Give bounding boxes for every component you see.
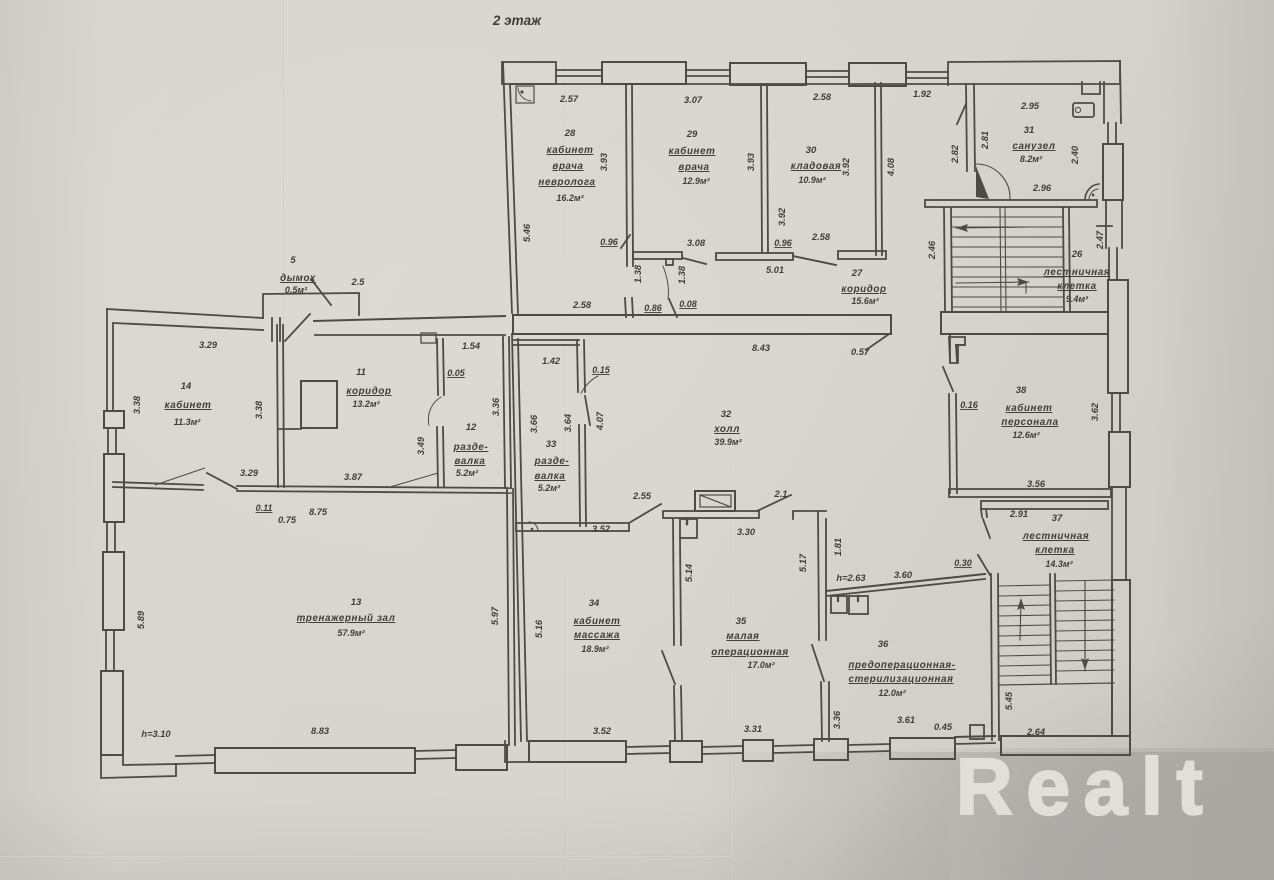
door leaf (left block entry) xyxy=(285,314,310,341)
svg-text:8.2м²: 8.2м² xyxy=(1020,154,1043,164)
leader 0.15 xyxy=(581,376,598,393)
wall: right exterior upper segment xyxy=(1103,82,1105,123)
window block M2 xyxy=(670,741,702,762)
wall: room 30 right xyxy=(875,83,876,255)
svg-text:2.55: 2.55 xyxy=(632,491,652,501)
svg-text:3.52: 3.52 xyxy=(593,726,612,736)
window block W4 xyxy=(849,63,906,86)
window: bottom glazing m2 xyxy=(702,746,743,747)
svg-text:5: 5 xyxy=(290,255,296,266)
svg-text:3.29: 3.29 xyxy=(199,340,218,350)
svg-text:38: 38 xyxy=(1016,385,1027,396)
door leaf hall/room38 xyxy=(943,367,953,391)
svg-text:14: 14 xyxy=(181,381,192,392)
column box room 34 top-left corner xyxy=(680,519,697,538)
stairs: lower stairwell 37 treads right flight xyxy=(1056,580,1114,671)
svg-text:29: 29 xyxy=(686,129,698,140)
stairs 37: flight divider xyxy=(1050,574,1051,684)
svg-text:валка: валка xyxy=(535,471,566,482)
svg-text:3.49: 3.49 xyxy=(416,436,426,455)
svg-text:лестничная: лестничная xyxy=(1043,267,1110,278)
svg-text:5.2м²: 5.2м² xyxy=(456,468,479,478)
wall: room 14 right partition xyxy=(277,325,278,487)
door arc room 31 xyxy=(976,164,1010,199)
wall: room 29 bottom xyxy=(633,252,682,259)
svg-text:3.62: 3.62 xyxy=(1090,402,1100,421)
door leaf rooms 35/36 xyxy=(812,645,824,681)
svg-text:4.08: 4.08 xyxy=(886,157,896,177)
svg-text:3.93: 3.93 xyxy=(746,152,756,171)
svg-text:3.38: 3.38 xyxy=(132,395,142,414)
svg-text:0.96: 0.96 xyxy=(600,237,619,247)
svg-text:коридор: коридор xyxy=(346,386,391,397)
corner box room36 bottom-right xyxy=(970,725,984,739)
svg-text:3.07: 3.07 xyxy=(684,95,703,105)
sink room 31 corner xyxy=(1085,184,1099,200)
svg-text:1.81: 1.81 xyxy=(833,538,843,556)
closet box corridor 11 xyxy=(301,381,337,428)
svg-text:36: 36 xyxy=(878,639,889,650)
window block W2 xyxy=(602,62,686,84)
svg-text:3.61: 3.61 xyxy=(897,715,915,725)
svg-text:2.5: 2.5 xyxy=(351,277,366,287)
door leaf room 34 (from hall) xyxy=(629,504,661,523)
wall: divider right part to room12 xyxy=(237,486,511,488)
svg-text:3.52: 3.52 xyxy=(592,524,611,534)
svg-text:предоперационная-: предоперационная- xyxy=(848,660,955,671)
wall stub below chimney xyxy=(271,318,273,341)
wall: stair26 right landing edge xyxy=(1063,207,1064,312)
wall: room 33 top stub xyxy=(577,340,578,392)
wall: room 31 bottom xyxy=(925,200,1097,207)
svg-text:1.92: 1.92 xyxy=(913,89,932,99)
svg-text:стерилизационная: стерилизационная xyxy=(849,674,954,685)
window block M1 (long, room 34 bottom) xyxy=(529,741,626,762)
partition rooms 29/30 xyxy=(761,84,762,253)
closet bottom line xyxy=(279,428,301,430)
svg-text:2.96: 2.96 xyxy=(1032,183,1052,193)
window block L2 xyxy=(104,454,124,522)
svg-text:3.29: 3.29 xyxy=(240,468,259,478)
wall: upper block top inner line xyxy=(511,83,1120,85)
wall: corridor 11 top (right of chimney) xyxy=(314,316,505,321)
svg-text:5.46: 5.46 xyxy=(522,223,532,242)
svg-text:0.15: 0.15 xyxy=(592,365,611,375)
wall: room 31 top-right inner notch xyxy=(1082,82,1100,94)
svg-text:2.40: 2.40 xyxy=(1070,145,1080,165)
svg-text:37: 37 xyxy=(1052,513,1063,524)
wall: gym right wall xyxy=(507,489,509,745)
svg-text:2.81: 2.81 xyxy=(980,131,990,150)
wall: hall right (room 38 side) upper stub xyxy=(949,337,965,345)
svg-text:2.91: 2.91 xyxy=(1009,509,1028,519)
svg-text:14.3м²: 14.3м² xyxy=(1045,559,1073,569)
door leaf triangle room 31 xyxy=(976,166,989,199)
svg-text:3.30: 3.30 xyxy=(737,527,756,537)
wall: room 37 top xyxy=(981,501,1108,509)
svg-text:3.92: 3.92 xyxy=(777,207,787,226)
svg-text:11: 11 xyxy=(356,367,366,378)
svg-text:2 этаж: 2 этаж xyxy=(492,13,542,28)
svg-text:12: 12 xyxy=(466,422,477,433)
door leaf room 30 xyxy=(793,256,836,265)
svg-text:0.57: 0.57 xyxy=(851,347,870,357)
window: right wall glazing 2 xyxy=(1108,248,1110,280)
window: right wall glazing 4 (long) xyxy=(1111,487,1113,580)
svg-text:клетка: клетка xyxy=(1057,281,1096,292)
wall: gym top divider (thin) xyxy=(113,482,203,485)
door swing tick near room 30/31 xyxy=(957,104,966,124)
window: right wall glazing 3 xyxy=(1111,393,1113,432)
wall: room 38 left xyxy=(949,394,950,493)
window block M3 xyxy=(743,740,773,761)
svg-text:5.89: 5.89 xyxy=(136,610,146,629)
door leaf room 33 xyxy=(585,396,590,425)
window: left glazing 2 xyxy=(106,522,108,552)
stairs 37: down arrow right flight xyxy=(1084,600,1086,658)
window: bottom glazing m3 xyxy=(773,745,814,746)
wall: left block top band xyxy=(107,309,263,318)
svg-text:57.9м²: 57.9м² xyxy=(337,628,365,638)
window: top wall glazing 1 xyxy=(556,69,602,71)
window block right R3 xyxy=(1109,432,1130,487)
wall stub: notch under room 29 wall xyxy=(666,259,673,265)
svg-text:дымох: дымох xyxy=(280,273,316,284)
wall: left block bottom-left corner xyxy=(101,745,176,778)
door arc corridor middle xyxy=(663,266,668,299)
svg-text:2.82: 2.82 xyxy=(950,144,960,164)
window block L4 xyxy=(101,671,123,755)
svg-text:2.57: 2.57 xyxy=(559,94,579,104)
svg-text:3.92: 3.92 xyxy=(841,157,851,176)
svg-text:лестничная: лестничная xyxy=(1022,531,1089,542)
svg-text:3.93: 3.93 xyxy=(599,152,609,171)
svg-text:разде-: разде- xyxy=(534,456,570,467)
wall: upper block left wall (outer+inner) xyxy=(503,62,512,313)
wall: right exterior segment 2 xyxy=(1105,200,1107,248)
svg-text:0.16: 0.16 xyxy=(960,400,979,410)
svg-text:17.0м²: 17.0м² xyxy=(747,660,775,670)
svg-text:12.9м²: 12.9м² xyxy=(682,176,710,186)
svg-text:3.36: 3.36 xyxy=(491,397,501,416)
wall: stair37 bottom xyxy=(1001,736,1130,755)
svg-text:3.36: 3.36 xyxy=(832,710,842,729)
wall: room 33 bottom xyxy=(516,523,629,531)
window block B2 xyxy=(456,745,507,770)
door leaf corridor middle xyxy=(669,299,677,317)
wall notch below stair band xyxy=(950,334,965,363)
svg-text:13: 13 xyxy=(351,597,362,608)
svg-text:коридор: коридор xyxy=(841,284,886,295)
leader line room 5 xyxy=(311,279,331,305)
svg-text:27: 27 xyxy=(851,268,863,279)
svg-text:5.16: 5.16 xyxy=(534,619,544,638)
svg-text:5.17: 5.17 xyxy=(798,553,808,572)
door leaf room 28 (bottom of partition) xyxy=(621,235,630,248)
svg-text:невролога: невролога xyxy=(538,177,595,188)
svg-text:массажа: массажа xyxy=(574,630,620,641)
window: top wall glazing 4 xyxy=(906,71,948,73)
svg-text:3.08: 3.08 xyxy=(687,238,706,248)
window: left glazing 1 xyxy=(107,428,109,454)
svg-text:15.6м²: 15.6м² xyxy=(851,296,879,306)
svg-text:0.08: 0.08 xyxy=(679,299,697,309)
svg-text:0.45: 0.45 xyxy=(934,722,953,732)
wall: long divider corridor27/hall (band) xyxy=(513,315,891,334)
wall stub room 37 top-left xyxy=(981,509,982,517)
wall: room 34 top (right of door) xyxy=(663,511,759,518)
svg-text:4.07: 4.07 xyxy=(595,411,605,431)
corner arc room 34 top-left xyxy=(529,522,538,531)
window block W3 xyxy=(730,63,806,85)
svg-text:5.2м²: 5.2м² xyxy=(538,483,561,493)
svg-text:3.31: 3.31 xyxy=(744,724,762,734)
svg-text:2.58: 2.58 xyxy=(811,232,831,242)
wall: rooms 35/36 partition lower xyxy=(821,682,822,741)
svg-text:малая: малая xyxy=(726,631,759,642)
svg-text:врача: врача xyxy=(552,161,583,172)
stairs 37: up arrow left flight xyxy=(1020,600,1021,640)
svg-text:10.9м²: 10.9м² xyxy=(798,175,826,185)
svg-text:0.96: 0.96 xyxy=(774,238,793,248)
window block right R1 xyxy=(1103,144,1123,200)
wall: stair26 left xyxy=(944,208,945,312)
wall: room 36 top xyxy=(826,574,985,591)
svg-text:разде-: разде- xyxy=(453,442,489,453)
svg-text:2.46: 2.46 xyxy=(927,240,937,260)
svg-text:2.47: 2.47 xyxy=(1095,230,1105,250)
svg-text:16.2м²: 16.2м² xyxy=(556,193,584,203)
wall: room 30 bottom right segment xyxy=(838,251,886,259)
door leaf room 29 xyxy=(683,258,706,264)
svg-text:35: 35 xyxy=(736,616,747,627)
svg-text:13.2м²: 13.2м² xyxy=(352,399,380,409)
wall: room 38 bottom xyxy=(949,489,1111,497)
svg-text:персонала: персонала xyxy=(1001,417,1058,428)
wall: room 33 right partition xyxy=(579,425,580,526)
svg-text:3.87: 3.87 xyxy=(344,472,363,482)
svg-text:h=2.63: h=2.63 xyxy=(836,573,866,583)
svg-text:12.0м²: 12.0м² xyxy=(878,688,906,698)
svg-text:кабинет: кабинет xyxy=(574,616,621,627)
svg-text:32: 32 xyxy=(721,409,732,420)
window: bottom glazing g1 xyxy=(176,755,215,756)
stairs 37: landing edge xyxy=(999,683,1114,685)
svg-text:0.75: 0.75 xyxy=(278,515,297,525)
wall: room 33 top xyxy=(513,339,579,341)
svg-text:санузел: санузел xyxy=(1012,141,1055,152)
door leaf room36/37 xyxy=(978,555,990,575)
svg-text:2.64: 2.64 xyxy=(1026,727,1046,737)
shaft box with diagonal xyxy=(695,491,735,511)
svg-text:кладовая: кладовая xyxy=(791,161,842,172)
svg-text:0.86: 0.86 xyxy=(644,303,663,313)
wall: room 36 bottom segment xyxy=(955,736,995,737)
wall: room 31 top outer band xyxy=(948,61,1120,85)
svg-text:5.45: 5.45 xyxy=(1004,691,1014,710)
dim tick right wall xyxy=(1097,225,1112,227)
svg-text:1.38: 1.38 xyxy=(633,264,643,283)
svg-text:холл: холл xyxy=(713,424,740,435)
chimney box room 5 xyxy=(263,293,359,318)
svg-text:кабинет: кабинет xyxy=(669,146,716,157)
watermark Realt xyxy=(956,741,1274,831)
svg-text:11.3м²: 11.3м² xyxy=(174,417,202,427)
window: bottom glazing m4 xyxy=(848,744,890,745)
svg-text:2.95: 2.95 xyxy=(1020,101,1040,111)
svg-text:5.97: 5.97 xyxy=(490,606,500,625)
door arc room 12 xyxy=(428,397,441,425)
window: bottom glazing g2 xyxy=(415,750,456,751)
svg-text:9.4м²: 9.4м² xyxy=(1066,294,1089,304)
wall: stair26 bottom band xyxy=(941,312,1108,334)
svg-text:2.1: 2.1 xyxy=(774,489,788,499)
leader tick gym right xyxy=(390,473,438,487)
window block M5 xyxy=(890,738,955,759)
stairs: upper stairwell 26 treads xyxy=(952,207,1063,312)
window: top wall glazing 2 xyxy=(686,69,730,71)
stairs 26: direction arrow lower flight xyxy=(956,282,1029,283)
svg-text:кабинет: кабинет xyxy=(547,145,594,156)
svg-text:5.14: 5.14 xyxy=(684,563,694,582)
svg-text:8.83: 8.83 xyxy=(311,726,330,736)
wall: upper block left wall lower segment (rooms 33/34 left) xyxy=(512,334,521,741)
svg-text:0.11: 0.11 xyxy=(256,503,273,513)
leader 2.1 door hall/room35 xyxy=(757,495,791,511)
svg-text:врача: врача xyxy=(678,162,709,173)
svg-text:операционная: операционная xyxy=(711,647,788,658)
corner mark room 28 top-left (box with quarter arc) xyxy=(516,86,534,103)
wall: rooms 34/35 partition xyxy=(673,519,674,645)
svg-text:8.75: 8.75 xyxy=(309,507,328,517)
svg-text:2.58: 2.58 xyxy=(812,92,832,102)
wall: rooms 29/30 bottom right part xyxy=(716,253,793,260)
svg-text:26: 26 xyxy=(1071,249,1083,260)
window block L3 xyxy=(103,552,124,630)
leader tick gym left xyxy=(155,468,205,485)
window block M4 xyxy=(814,739,848,760)
window: right wall glazing 1 xyxy=(1107,123,1109,144)
wall: bottom-left corner of main block xyxy=(505,741,529,762)
svg-text:31: 31 xyxy=(1024,125,1035,136)
corner notch corridor 11 top xyxy=(421,333,436,343)
window: left glazing 3 xyxy=(105,630,107,671)
svg-text:33: 33 xyxy=(546,439,557,450)
svg-text:30: 30 xyxy=(806,145,817,156)
window block L1 xyxy=(104,411,124,428)
svg-text:кабинет: кабинет xyxy=(1006,403,1053,414)
svg-text:3.64: 3.64 xyxy=(563,413,573,432)
wall: rooms 34/35 partition lower xyxy=(674,686,675,741)
svg-text:5.01: 5.01 xyxy=(766,265,784,275)
vent boxes below room36 top wall xyxy=(831,596,847,613)
svg-text:тренажерный зал: тренажерный зал xyxy=(297,613,396,624)
svg-text:h=3.10: h=3.10 xyxy=(141,729,171,739)
wall: room 12 right (left-block right wall) xyxy=(503,337,505,488)
wall: room 12 left partition upper stub xyxy=(437,339,438,395)
svg-text:39.9м²: 39.9м² xyxy=(714,437,742,447)
window block B1 (long) xyxy=(215,748,415,773)
stairs: lower stairwell 37 treads left flight xyxy=(999,585,1050,676)
wall: rooms 35/36 partition top cap xyxy=(793,511,826,519)
wall: room 31 left partition xyxy=(966,84,967,171)
door stub corridor 27 middle xyxy=(625,298,626,317)
svg-text:18.9м²: 18.9м² xyxy=(581,644,609,654)
wall: room 12 left partition lower xyxy=(437,427,438,487)
stairs 26: direction arrow upper flight xyxy=(956,227,1030,228)
leader 0.57 at divider end xyxy=(866,334,889,350)
svg-text:3.66: 3.66 xyxy=(529,414,539,433)
window block right R2 xyxy=(1108,280,1128,393)
wall: stair37 right xyxy=(1112,580,1130,736)
svg-text:34: 34 xyxy=(589,598,600,609)
svg-text:12.6м²: 12.6м² xyxy=(1012,430,1040,440)
svg-text:валка: валка xyxy=(455,456,486,467)
svg-text:кабинет: кабинет xyxy=(165,400,212,411)
door leaf gym/room14 xyxy=(207,473,237,489)
door leaf room 37 upper xyxy=(983,519,990,538)
svg-text:0.30: 0.30 xyxy=(954,558,972,568)
svg-text:1.38: 1.38 xyxy=(677,265,687,284)
svg-text:клетка: клетка xyxy=(1035,545,1074,556)
wall: rooms 35/36 partition xyxy=(818,511,819,640)
door leaf rooms 34/35 xyxy=(662,651,675,684)
svg-text:3.56: 3.56 xyxy=(1027,479,1046,489)
window: bottom glazing m1 xyxy=(626,746,670,747)
svg-text:0.05: 0.05 xyxy=(447,368,466,378)
window block W1 (top wall corner block) xyxy=(502,62,556,84)
svg-text:3.60: 3.60 xyxy=(894,570,913,580)
window: top wall glazing 3 xyxy=(806,70,849,72)
svg-text:0.5м²: 0.5м² xyxy=(285,285,308,295)
svg-text:28: 28 xyxy=(564,128,576,139)
svg-text:1.42: 1.42 xyxy=(542,356,561,366)
partition rooms 28/29 xyxy=(626,84,627,266)
svg-text:2.58: 2.58 xyxy=(572,300,592,310)
wall: stair37 left xyxy=(991,574,992,740)
svg-text:1.54: 1.54 xyxy=(462,341,481,351)
toilet cistern room 31 xyxy=(1073,103,1094,117)
wall: left block left exterior (upper) xyxy=(106,309,108,411)
svg-text:3.38: 3.38 xyxy=(254,400,264,419)
svg-text:8.43: 8.43 xyxy=(752,343,771,353)
